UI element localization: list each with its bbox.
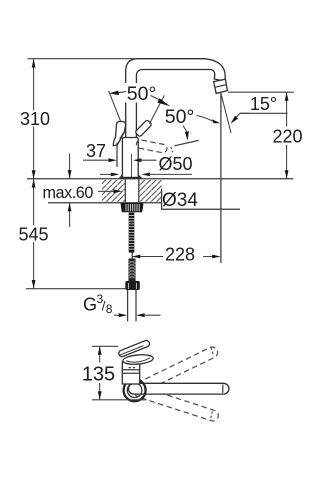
svg-text:50°: 50° [165,106,195,128]
svg-text:max.60: max.60 [43,184,94,202]
svg-text:37: 37 [86,141,106,161]
svg-text:310: 310 [20,109,50,129]
svg-text:135: 135 [82,364,115,386]
svg-text:Ø50: Ø50 [158,154,192,174]
svg-text:8: 8 [106,302,113,316]
svg-text:15°: 15° [250,94,277,114]
svg-text:545: 545 [18,224,48,244]
svg-text:Ø34: Ø34 [162,190,198,211]
svg-text:50°: 50° [127,83,157,105]
svg-text:G: G [83,294,97,314]
svg-text:220: 220 [272,127,302,147]
svg-text:228: 228 [165,245,195,265]
